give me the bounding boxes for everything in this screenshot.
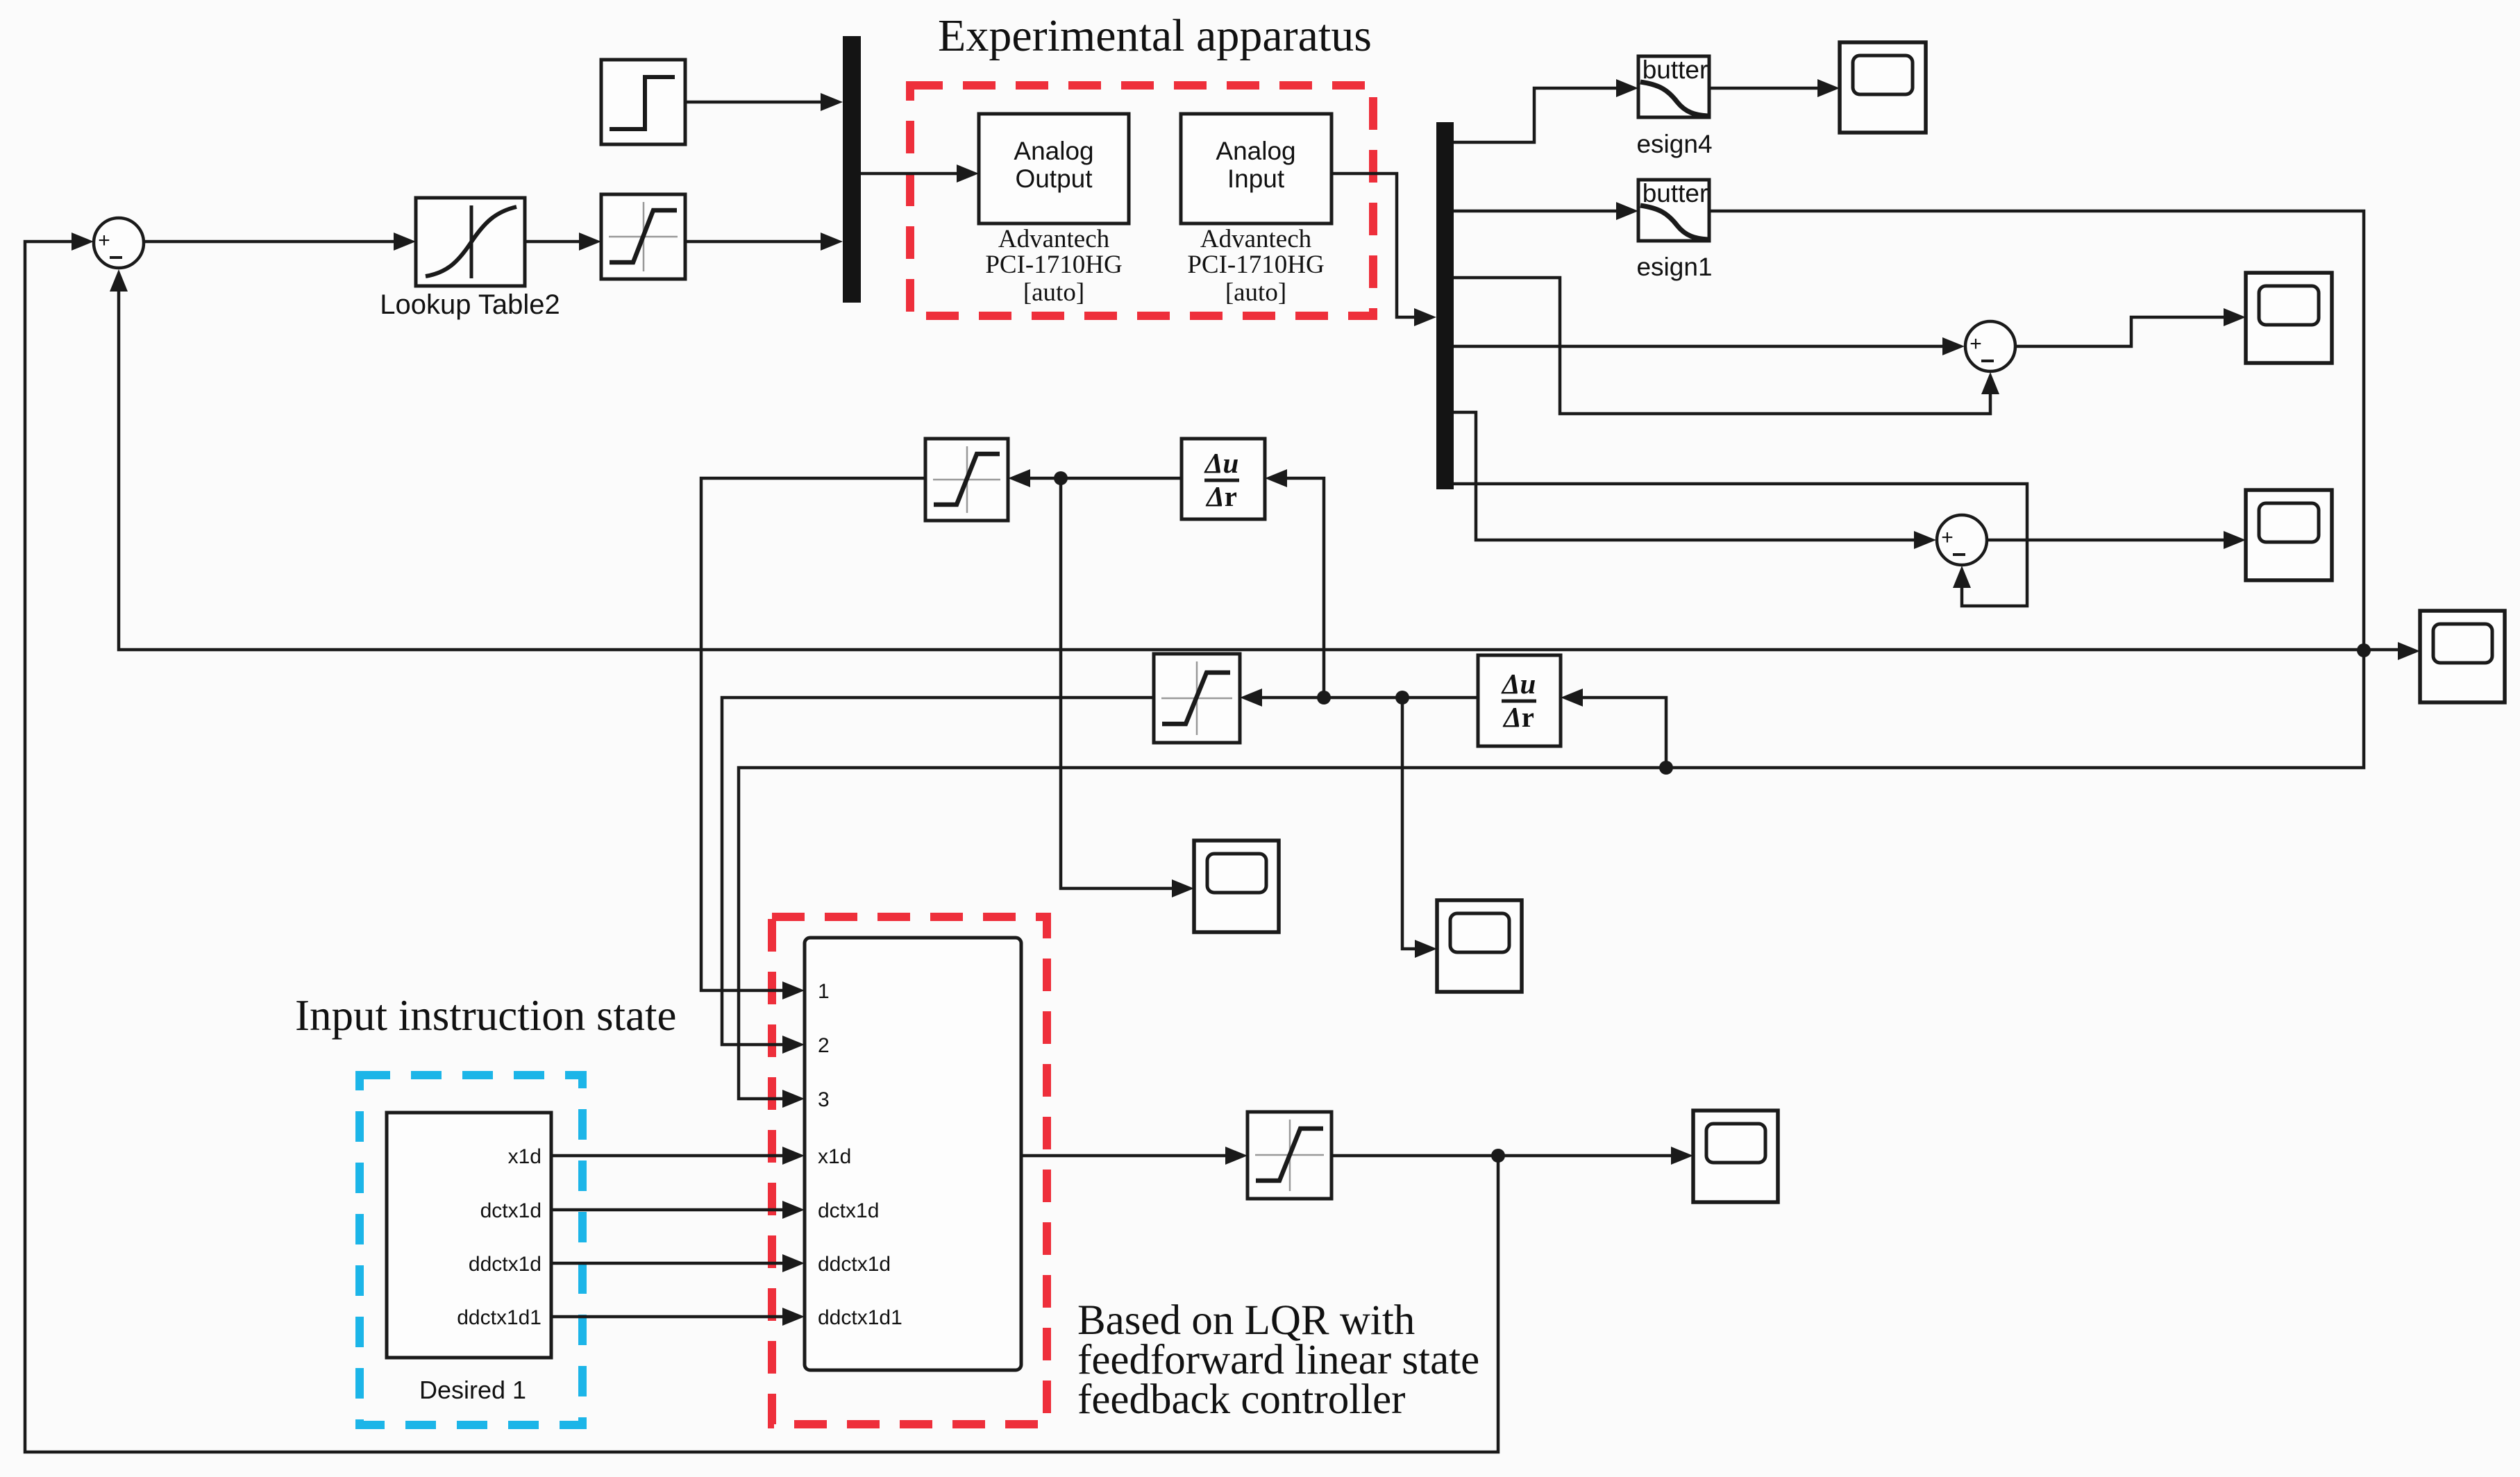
- sum junction S1: [94, 218, 144, 268]
- svg-text:esign4: esign4: [1636, 130, 1712, 158]
- arrowhead into butter Design4: [1616, 79, 1638, 97]
- wire: Saturation1 to Mux: [685, 240, 823, 244]
- junction on du/dr1-to-Saturation2 wire (branch to Scope6): [1054, 471, 1068, 485]
- block Step: [601, 60, 685, 144]
- svg-text:x1d: x1d: [818, 1145, 851, 1168]
- svg-text:+: +: [1941, 526, 1954, 549]
- arrowhead into Lookup Table2: [394, 233, 416, 251]
- svg-text:+: +: [98, 229, 110, 252]
- svg-text:Δr: Δr: [1502, 701, 1534, 733]
- wire: Desired ddctx1d to subsystem: [551, 1262, 785, 1265]
- wire: subsystem output to Saturation5: [1021, 1154, 1228, 1158]
- arrowhead into Scope2: [2224, 308, 2246, 326]
- arrowhead into du/dr 1 input: [1265, 469, 1287, 487]
- block butter filter Design4: [1638, 56, 1709, 117]
- wire: Demux out3 to sum S2 minus input: [1454, 278, 1990, 414]
- sum junction S3: [1937, 515, 1987, 565]
- block Saturation5: [1248, 1112, 1332, 1199]
- svg-text:Δr: Δr: [1205, 480, 1237, 512]
- label: Advantech PCI-1710HG [auto] under Analog Output: [985, 225, 1122, 307]
- wire: Saturation5 output to Scope5: [1332, 1154, 1674, 1158]
- arrowhead into subsystem input x1d: [782, 1147, 805, 1165]
- wire: branch to Scope4: [2364, 648, 2401, 652]
- svg-text:butter: butter: [1643, 56, 1708, 84]
- block controller subsystem: [805, 938, 1021, 1370]
- label: Advantech PCI-1710HG [auto] under Analog Input: [1187, 225, 1324, 307]
- svg-text:[auto]: [auto]: [1225, 278, 1286, 307]
- wire: Desired x1d to subsystem: [551, 1154, 785, 1158]
- arrowhead into Scope5: [1671, 1147, 1693, 1165]
- wire: sum S3 output to Scope3: [1987, 539, 2224, 542]
- wire: Saturation4 output to subsystem input 2: [722, 698, 1154, 1045]
- arrowhead into Demux: [1414, 308, 1436, 326]
- svg-text:[auto]: [auto]: [1023, 278, 1084, 307]
- arrowhead into Scope3: [2224, 531, 2246, 549]
- wire: branch up to du/dr 1 input: [1287, 478, 1324, 698]
- wire: Demux out1 to butter filter Design4: [1454, 88, 1619, 142]
- block Scope6: [1194, 841, 1279, 932]
- wire: Desired dctx1d to subsystem: [551, 1208, 785, 1212]
- arrowhead into subsystem input ddctx1d: [782, 1254, 805, 1272]
- svg-text:Analog: Analog: [1216, 137, 1295, 165]
- block Scope7: [1437, 900, 1522, 992]
- region: Experimental apparatus red dashed box: [910, 85, 1373, 316]
- arrowhead into Scope7: [1415, 940, 1437, 958]
- block Saturation4: [1154, 654, 1240, 743]
- svg-text:Advantech: Advantech: [1200, 225, 1312, 253]
- arrowhead into sum S3 minus input: [1953, 566, 1971, 588]
- wire: Desired ddctx1d1 to subsystem: [551, 1315, 785, 1319]
- svg-text:PCI-1710HG: PCI-1710HG: [985, 251, 1122, 279]
- svg-text:ddctx1d: ddctx1d: [818, 1253, 891, 1276]
- arrowhead into Saturation1: [579, 233, 601, 251]
- wire: Demux out2 to butter filter Design1: [1454, 210, 1619, 213]
- svg-text:dctx1d: dctx1d: [818, 1199, 879, 1222]
- svg-text:feedback controller: feedback controller: [1077, 1376, 1405, 1423]
- arrowhead into Scope1: [1817, 79, 1840, 97]
- arrowhead into subsystem input dctx1d: [782, 1201, 805, 1219]
- junction on Saturation5 output (branch to bottom feedback): [1491, 1149, 1505, 1163]
- svg-text:Desired 1: Desired 1: [419, 1376, 526, 1404]
- arrowhead Saturation1 to Mux: [821, 233, 843, 251]
- svg-text:esign1: esign1: [1636, 253, 1712, 281]
- svg-text:dctx1d: dctx1d: [480, 1199, 541, 1222]
- svg-text:ddctx1d: ddctx1d: [469, 1253, 541, 1276]
- svg-text:1: 1: [818, 980, 830, 1003]
- wire: Step to Mux: [685, 101, 823, 104]
- block butter filter Design1: [1638, 179, 1709, 241]
- svg-text:2: 2: [818, 1034, 830, 1057]
- svg-text:Input instruction state: Input instruction state: [295, 991, 676, 1040]
- wire: branch down to Scope7: [1402, 698, 1418, 949]
- wire: Lookup Table2 to Saturation1: [525, 240, 583, 244]
- arrowhead into sum S3 plus input: [1914, 531, 1936, 549]
- wire: sum S2 output to Scope2: [2015, 317, 2224, 346]
- svg-text:Input: Input: [1227, 164, 1285, 193]
- arrowhead into sum S2 plus input: [1942, 337, 1965, 355]
- svg-text:ddctx1d1: ddctx1d1: [818, 1306, 902, 1329]
- junction on esign1 feedback line (branch to Scope4): [2357, 643, 2371, 657]
- junction on line B (branch to du/dr2): [1659, 761, 1673, 775]
- block Saturation1: [601, 194, 685, 279]
- wire: Mux to Analog Output: [861, 172, 959, 176]
- svg-text:Output: Output: [1015, 164, 1093, 193]
- wire: branch down to Scope6: [1061, 478, 1175, 888]
- wire: outer feedback loop from Sat5 output down and around to sum S1 left input: [25, 242, 1498, 1452]
- block Desired 1: [387, 1113, 551, 1358]
- svg-text:butter: butter: [1643, 179, 1708, 208]
- wire: Analog Input to Demux: [1332, 174, 1416, 317]
- wire: feedback line A to sum S1 minus input: [119, 292, 2364, 650]
- arrowhead into Saturation4 input: [1240, 689, 1262, 707]
- arrowhead into sum S2 minus input: [1981, 372, 1999, 394]
- region: input instruction cyan dashed box: [360, 1075, 582, 1425]
- wire: butter Design1 long route to subsystem input 3: [739, 211, 2364, 1099]
- block Analog Output: [979, 114, 1129, 223]
- block Scope3: [2246, 490, 2332, 580]
- arrowhead Step to Mux: [821, 93, 843, 111]
- svg-text:Analog: Analog: [1014, 137, 1093, 165]
- block Demux (vertical bar): [1436, 122, 1454, 489]
- wire: Demux out5 to sum S3 plus input: [1454, 412, 1917, 540]
- wire: du/dr 1 output to Saturation2: [1030, 477, 1182, 480]
- wire: sum S1 output to Lookup Table2: [144, 240, 397, 244]
- sum junction S2: [1965, 321, 2015, 371]
- wire: branch up to du/dr 2 input: [1583, 698, 1666, 768]
- block Lookup Table2: [416, 198, 525, 286]
- block du/dr 2: [1478, 655, 1561, 746]
- wire: butter Design4 to Scope1: [1709, 87, 1820, 90]
- arrowhead into subsystem input 2: [782, 1036, 805, 1054]
- label: Based on LQR with feedforward linear state feedback controller: [1077, 1297, 1479, 1423]
- wire: du/dr 2 output to Saturation4: [1262, 696, 1478, 700]
- arrowhead into sum S1 left input: [72, 233, 94, 251]
- block Scope2: [2246, 273, 2332, 363]
- svg-text:Experimental apparatus: Experimental apparatus: [938, 10, 1372, 61]
- svg-text:Δu: Δu: [1204, 447, 1239, 479]
- arrowhead into subsystem input ddctx1d1: [782, 1308, 805, 1326]
- block Scope1: [1840, 42, 1926, 133]
- junction on du/dr2-to-Saturation4 wire (branch to du/dr1): [1317, 691, 1331, 704]
- arrowhead into Scope4: [2398, 642, 2420, 660]
- svg-text:Advantech: Advantech: [998, 225, 1110, 253]
- wire: Demux out4 to sum S2 plus input: [1454, 345, 1945, 348]
- wire: Saturation2 output to subsystem input 1: [701, 478, 925, 990]
- wire: Demux out6 loop to sum S3 minus input: [1454, 484, 2027, 606]
- arrowhead into sum S1 minus input: [110, 269, 128, 292]
- block Mux (vertical bar): [843, 36, 861, 303]
- svg-text:PCI-1710HG: PCI-1710HG: [1187, 251, 1324, 279]
- svg-text:Δu: Δu: [1501, 668, 1536, 700]
- block Scope5: [1693, 1111, 1778, 1202]
- block Scope4: [2420, 611, 2505, 702]
- arrowhead into subsystem input 3: [782, 1090, 805, 1108]
- region: controller red dashed box: [772, 917, 1047, 1424]
- svg-text:+: +: [1969, 332, 1982, 355]
- block du/dr 1: [1182, 439, 1265, 519]
- arrowhead into Saturation5: [1225, 1147, 1248, 1165]
- svg-text:ddctx1d1: ddctx1d1: [457, 1306, 541, 1329]
- svg-text:3: 3: [818, 1088, 830, 1111]
- arrowhead into Saturation2 input: [1008, 469, 1030, 487]
- block Saturation2: [925, 439, 1008, 521]
- junction on du/dr2-to-Saturation4 wire (branch to Scope7): [1395, 691, 1409, 704]
- arrowhead into butter Design1: [1616, 202, 1638, 220]
- arrowhead into Analog Output: [957, 164, 979, 183]
- svg-text:x1d: x1d: [508, 1145, 541, 1168]
- block Analog Input: [1181, 114, 1332, 223]
- arrowhead into Scope6: [1172, 879, 1194, 897]
- svg-text:Lookup Table2: Lookup Table2: [380, 289, 560, 320]
- arrowhead into subsystem input 1: [782, 981, 805, 999]
- arrowhead into du/dr 2 input: [1561, 689, 1583, 707]
